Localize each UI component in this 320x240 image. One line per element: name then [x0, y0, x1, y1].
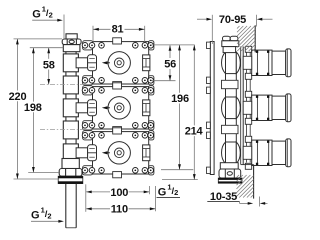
side view: top inlet fitting	[222, 36, 239, 52]
bottom washer stack	[58, 176, 83, 183]
side view: valve bulges	[222, 52, 241, 74]
dimension 110	[86, 186, 155, 216]
dimension 198	[24, 48, 63, 173]
svg-text:100: 100	[110, 187, 128, 199]
wall section bottom with hatching	[241, 165, 254, 199]
dimension 214	[162, 45, 204, 180]
dimension 196	[161, 45, 193, 170]
label G1/2 bottom-left	[31, 206, 64, 223]
dimension 58	[43, 48, 55, 85]
svg-text:58: 58	[43, 59, 55, 71]
dimension 81	[93, 24, 145, 42]
side view: mounting plate edge-on	[207, 42, 215, 175]
svg-text:110: 110	[111, 204, 128, 216]
svg-text:196: 196	[171, 93, 189, 105]
dimension 220	[9, 39, 62, 179]
label G1/2 middle-bottom	[157, 182, 181, 198]
svg-text:198: 198	[24, 102, 42, 114]
supply pipe left column	[66, 52, 76, 159]
svg-text:56: 56	[164, 58, 176, 70]
joint centerlines	[40, 85, 84, 130]
dimension 100	[86, 184, 150, 212]
side view: body column	[226, 47, 251, 165]
side view: bottom washer	[218, 178, 242, 183]
valve module 3 (bottom)	[76, 128, 154, 178]
dimension 70-95	[197, 14, 273, 44]
side view: bottom outlet	[219, 163, 241, 178]
svg-text:81: 81	[112, 24, 124, 36]
pipe coupling blocks	[63, 54, 78, 162]
bottom outlet pipe	[66, 184, 76, 228]
dimension 56	[152, 45, 195, 81]
bottom outlet fitting	[59, 159, 82, 177]
valve module 1 (top)	[76, 38, 154, 88]
dimension 10-35	[207, 191, 267, 207]
label G1/2 top-left	[32, 5, 64, 39]
side view: valve stems through wall	[243, 46, 291, 79]
svg-text:70-95: 70-95	[219, 14, 246, 26]
svg-text:214: 214	[185, 125, 204, 137]
side view: joint plates	[222, 80, 239, 88]
valve module 2 (middle)	[76, 83, 154, 133]
top inlet fitting G1/2	[62, 34, 81, 52]
wall section top with hatching	[254, 25, 256, 52]
